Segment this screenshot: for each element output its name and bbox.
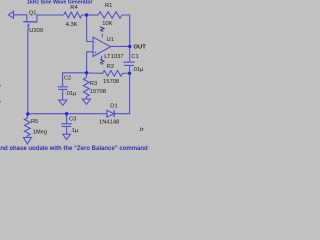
wire D1 to right rail corner — [114, 73, 129, 113]
wire C2 to ground — [62, 90, 64, 100]
svg-text:R5: R5 — [31, 119, 38, 125]
svg-text:5: 5 — [0, 99, 1, 105]
capacitor C1 — [123, 62, 134, 65]
svg-text:15708: 15708 — [103, 79, 119, 85]
diode D1 cathode bar — [113, 110, 115, 117]
wire right rail OUT to C1 — [129, 46, 131, 62]
wire R5 to ground — [26, 136, 28, 138]
op-amp power pin marks — [100, 27, 104, 64]
svg-text:.01µ: .01µ — [132, 67, 144, 73]
wire node X down to inverting input — [87, 15, 93, 42]
node P junction dot — [85, 71, 88, 74]
node C1/R2 junction dot — [128, 72, 131, 75]
wire node P down to R3 — [85, 73, 87, 78]
svg-text:R1: R1 — [105, 3, 112, 9]
svg-text:15708: 15708 — [90, 89, 106, 95]
wire R2 to right rail — [123, 72, 130, 74]
svg-text:and phase update with the “Zer: and phase update with the “Zero Balance”… — [0, 146, 150, 150]
svg-text:C1: C1 — [131, 54, 138, 60]
svg-text:1Meg: 1Meg — [33, 129, 48, 135]
resistor R3 — [83, 78, 89, 97]
resistor R2 — [103, 71, 123, 77]
transistor Q1 source lead — [37, 15, 42, 21]
svg-text:.1µ: .1µ — [70, 128, 79, 134]
svg-text:1kHz Sine Wave Generator: 1kHz Sine Wave Generator — [27, 0, 93, 5]
wire node X to R1 — [87, 14, 99, 16]
svg-text:C2: C2 — [64, 75, 71, 81]
ground under C3 — [63, 134, 71, 139]
ground under R3 — [82, 99, 90, 104]
node OUT junction dot — [128, 45, 131, 48]
capacitor C3 — [61, 124, 72, 127]
svg-text:R3: R3 — [90, 81, 97, 87]
ground port arrow left — [8, 11, 13, 18]
svg-text:C3: C3 — [69, 116, 76, 122]
wire R3 to ground — [85, 97, 87, 99]
ground under R5 — [23, 137, 31, 144]
wire top rail Q1 to R4 — [42, 14, 64, 16]
wire port to Q1 drain — [14, 15, 27, 21]
resistor R1 — [98, 12, 122, 18]
svg-text:.01µ: .01µ — [65, 91, 77, 97]
resistor R4 — [64, 12, 82, 18]
transistor Q1 gate arrow — [27, 23, 30, 26]
svg-text:10K: 10K — [102, 21, 112, 27]
svg-text:.tr: .tr — [139, 127, 144, 133]
wire C3 node down — [66, 114, 68, 124]
wire C1 to R2 node — [129, 66, 131, 74]
op-amp U1 triangle — [93, 37, 111, 57]
svg-text:OUT: OUT — [134, 45, 147, 51]
wire op-amp output to OUT node — [111, 45, 130, 47]
wire C3 to ground — [66, 127, 68, 135]
ground under C2 — [59, 100, 67, 105]
wire R1 to right rail corner — [122, 15, 130, 46]
wire Q1 gate down left side — [27, 26, 30, 114]
svg-text:5: 5 — [0, 83, 1, 89]
op-amp input polarity marks — [94, 39, 97, 55]
svg-text:D1: D1 — [110, 103, 117, 109]
svg-text:R4: R4 — [70, 5, 78, 11]
node R5/gate junction dot — [26, 112, 29, 115]
op-amp U1 V- stub — [101, 56, 103, 60]
svg-text:Q1: Q1 — [29, 10, 37, 16]
capacitor C2 — [58, 87, 68, 90]
resistor R5 — [24, 118, 30, 136]
svg-text:LT1037: LT1037 — [104, 54, 123, 60]
wire R4 to node X — [82, 14, 87, 16]
wire bottom rail gate node to D1 — [28, 113, 107, 115]
svg-text:R2: R2 — [107, 64, 114, 70]
svg-text:4.3K: 4.3K — [66, 22, 78, 28]
transistor Q1 channel bar — [23, 21, 37, 23]
op-amp U1 V+ stub — [101, 34, 103, 38]
svg-text:U309: U309 — [29, 28, 43, 34]
wire noninverting input to node P — [87, 52, 93, 73]
diode D1 triangle — [107, 110, 114, 117]
node X junction dot — [85, 13, 88, 16]
wire node P to R2 — [87, 72, 103, 74]
node C3 junction dot — [65, 112, 68, 115]
svg-text:U1: U1 — [107, 37, 114, 43]
wire node P to C2 — [63, 73, 87, 87]
svg-text:1N4148: 1N4148 — [99, 119, 119, 125]
wire junction to R5 — [26, 114, 29, 118]
